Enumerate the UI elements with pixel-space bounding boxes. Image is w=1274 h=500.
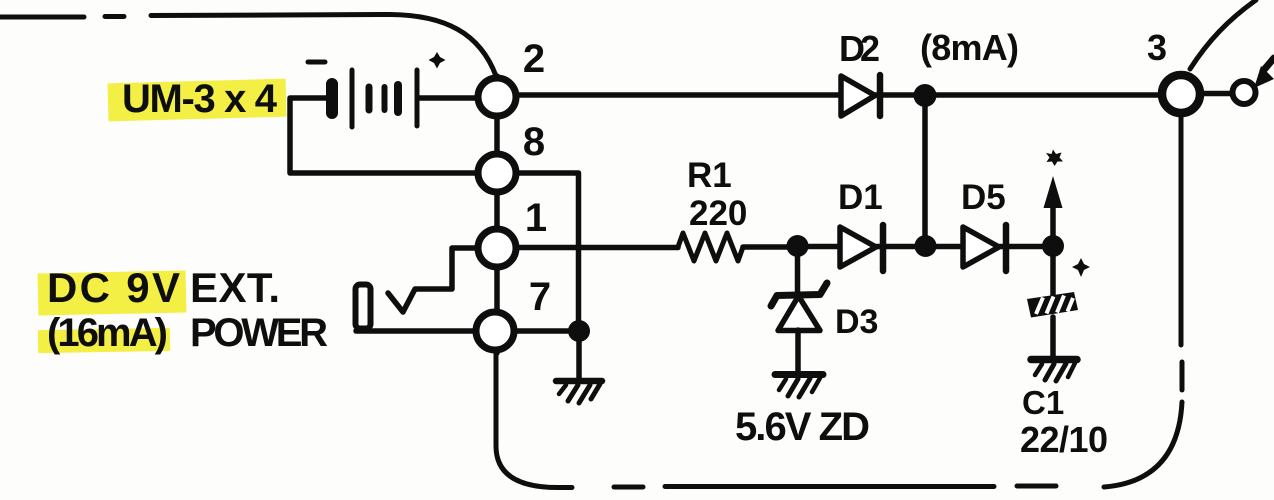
ground G2 (D3) xyxy=(775,375,823,398)
enclosure boundary top dash-dot xyxy=(0,15,496,77)
svg-text:3: 3 xyxy=(1147,27,1167,68)
battery plus sign xyxy=(429,52,446,69)
wire top junction down to middle junction xyxy=(922,95,928,246)
wire jack sleeve to pin 7 xyxy=(356,328,474,334)
wire middle row pin 1 to R1 xyxy=(516,245,678,251)
svg-text:22/10: 22/10 xyxy=(1020,419,1108,460)
wire junction to ground xyxy=(576,331,582,378)
arrow output marker xyxy=(1044,176,1063,246)
node top junction xyxy=(914,84,937,107)
svg-text:220: 220 xyxy=(689,194,747,233)
svg-text:1: 1 xyxy=(525,196,547,240)
pin 8 xyxy=(478,154,516,192)
external arrow at right edge xyxy=(1254,58,1274,88)
highlight UM-3 x 4 xyxy=(108,79,287,122)
enclosure boundary bottom-left curve xyxy=(496,351,572,488)
resistor R1 xyxy=(678,233,743,261)
wire pin 7 right to ground junction xyxy=(514,328,578,334)
svg-text:UM-3 x 4: UM-3 x 4 xyxy=(122,77,278,121)
wire junction C down to C1 xyxy=(1050,246,1056,296)
pin 3 xyxy=(1162,75,1200,113)
wire jack tip contact to pin 1 xyxy=(388,248,476,312)
plus sign C1 xyxy=(1072,258,1090,277)
enclosure boundary right dash xyxy=(1180,362,1185,390)
wire battery negative loop to pin 8 xyxy=(290,98,476,173)
enclosure boundary top-right curve xyxy=(1190,0,1256,69)
wire C1 plate to ground xyxy=(1050,317,1056,358)
svg-text:R1: R1 xyxy=(687,156,732,195)
node junction B xyxy=(915,235,937,257)
svg-text:C1: C1 xyxy=(1022,384,1064,421)
svg-text:D2: D2 xyxy=(839,28,880,69)
battery B1 xyxy=(332,70,417,127)
wire junction A to junction C xyxy=(798,244,1053,250)
svg-text:EXT.: EXT. xyxy=(190,264,280,311)
enclosure boundary bottom dashes xyxy=(614,486,1056,487)
wire zener to ground xyxy=(795,330,801,373)
wire pin 8 right to ground junction xyxy=(516,173,579,330)
wire pin column vertical xyxy=(494,76,500,353)
svg-text:DC 9V: DC 9V xyxy=(47,264,180,311)
wire junction A down to zener xyxy=(795,246,801,294)
wire R1 to junction A xyxy=(743,244,798,250)
ground G1 xyxy=(556,381,602,403)
svg-text:POWER: POWER xyxy=(190,311,328,355)
capacitor C1 top plate xyxy=(1027,292,1078,318)
svg-text:D1: D1 xyxy=(838,178,883,217)
svg-text:(16mA): (16mA) xyxy=(47,311,168,355)
enclosure boundary bottom-right arc xyxy=(1104,402,1182,487)
highlight DC 9V xyxy=(38,270,187,315)
jack J1 barrel xyxy=(356,285,371,329)
svg-text:2: 2 xyxy=(523,37,545,81)
svg-text:5.6V ZD: 5.6V ZD xyxy=(735,405,870,449)
star marker xyxy=(1046,150,1063,167)
wire top row pin 2 to pin 3 xyxy=(516,92,1161,98)
node junction A xyxy=(787,235,809,257)
ground G3 (C1) xyxy=(1031,360,1077,382)
zener diode D3 xyxy=(771,283,827,331)
wire pin 3 to external circle xyxy=(1200,91,1233,97)
diode D5 xyxy=(963,225,1006,271)
pin 1 xyxy=(478,229,516,267)
highlight (16mA) xyxy=(38,328,170,353)
svg-text:D3: D3 xyxy=(835,303,878,341)
svg-text:8: 8 xyxy=(523,120,545,164)
svg-text:(8mA): (8mA) xyxy=(920,27,1019,68)
svg-text:7: 7 xyxy=(529,275,551,319)
node ground junction xyxy=(568,320,590,342)
diode D1 xyxy=(840,225,883,271)
pin 2 xyxy=(478,78,516,116)
external contact circle xyxy=(1233,81,1256,104)
wire pin 3 down (right boundary) xyxy=(1179,114,1184,345)
svg-text:D5: D5 xyxy=(961,178,1006,217)
node junction C xyxy=(1042,235,1064,257)
wire battery positive to pin 2 xyxy=(419,95,476,101)
diode D2 xyxy=(841,75,880,116)
pin 7 xyxy=(476,312,514,350)
battery minus sign xyxy=(308,60,325,65)
